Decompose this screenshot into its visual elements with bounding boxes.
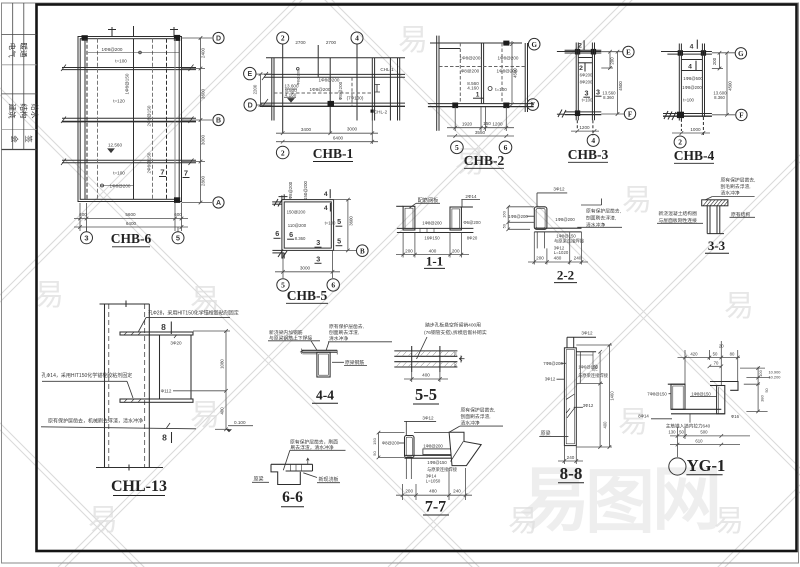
svg-text:2: 2 <box>678 138 682 147</box>
7-7 big leader arrow <box>449 432 481 465</box>
detail CHB-3 plan <box>557 43 625 136</box>
svg-text:图: 图 <box>585 463 655 541</box>
svg-text:50: 50 <box>372 451 377 456</box>
svg-text:1Ф8@200: 1Ф8@200 <box>498 55 519 60</box>
YG-1 right wall <box>717 386 725 414</box>
svg-text:2400: 2400 <box>200 47 205 58</box>
svg-text:4: 4 <box>355 34 359 43</box>
svg-text:3Ф12: 3Ф12 <box>422 415 434 420</box>
svg-text:Ф6@200: Ф6@200 <box>463 220 481 225</box>
long beam CHL-1 double line <box>264 73 405 75</box>
detail CHL-13 <box>96 301 193 471</box>
svg-text:原有结构: 原有结构 <box>731 211 750 218</box>
svg-text:50: 50 <box>454 352 458 356</box>
svg-text:配筋网板: 配筋网板 <box>418 196 440 204</box>
left edge verticals <box>271 58 273 121</box>
8-8 right dims <box>576 343 612 449</box>
right wall 1-1 <box>450 207 461 230</box>
svg-text:结构: 结构 <box>19 104 29 119</box>
svg-text:清水冲净: 清水冲净 <box>329 335 348 342</box>
svg-text:600: 600 <box>174 212 182 217</box>
svg-text:E: E <box>626 49 631 57</box>
8-8 bottom dim <box>558 446 583 464</box>
3-3 top annotation <box>721 176 756 196</box>
CHB-5 right dim <box>334 198 351 252</box>
column squares CHB-6 <box>82 35 88 41</box>
svg-text:8: 8 <box>162 433 167 443</box>
CHB-3 bottom dims <box>571 129 599 133</box>
svg-text:t=120: t=120 <box>113 99 125 104</box>
CHB-6 right dimension chain <box>182 36 213 204</box>
svg-text:CHB-5: CHB-5 <box>287 288 328 303</box>
svg-text:3000: 3000 <box>347 127 358 132</box>
top ticks <box>111 27 113 37</box>
grid circle 6 bottom <box>499 141 512 154</box>
5-5 right small dims <box>454 352 458 367</box>
svg-text:3Ф12: 3Ф12 <box>553 186 565 191</box>
svg-text:760: 760 <box>594 364 599 372</box>
6-6 slab <box>271 458 313 484</box>
section marks 7 in CHB-6 <box>160 168 188 178</box>
svg-text:200: 200 <box>405 489 413 494</box>
svg-text:与原梁钢筋上下焊接: 与原梁钢筋上下焊接 <box>269 334 312 341</box>
svg-text:新浇混凝土结构圈: 新浇混凝土结构圈 <box>659 210 698 217</box>
svg-text:240: 240 <box>574 255 582 260</box>
svg-text:G: G <box>738 50 744 58</box>
svg-text:240: 240 <box>567 455 575 460</box>
column verticals <box>104 304 106 468</box>
svg-text:1Ф8@500: 1Ф8@500 <box>683 76 703 81</box>
7-7 right annotation <box>461 406 496 426</box>
svg-text:给水: 给水 <box>30 104 40 119</box>
svg-text:8: 8 <box>161 322 166 332</box>
svg-text:易: 易 <box>618 406 648 439</box>
svg-text:3000: 3000 <box>200 134 205 145</box>
svg-text:Ф16: Ф16 <box>731 414 740 419</box>
svg-text:150: 150 <box>483 121 491 126</box>
1-1 bottom dims <box>396 233 469 258</box>
svg-text:Ф112: Ф112 <box>161 388 172 393</box>
svg-text:8.360: 8.360 <box>295 236 306 241</box>
svg-text:L=1050: L=1050 <box>426 478 441 483</box>
svg-text:1Ф8@200: 1Ф8@200 <box>682 85 702 90</box>
detail CHB-6 plan <box>61 26 196 203</box>
svg-text:清水冲净: 清水冲净 <box>721 190 740 197</box>
svg-text:2: 2 <box>578 43 582 50</box>
svg-text:3: 3 <box>84 234 88 243</box>
svg-text:t=100: t=100 <box>113 171 125 176</box>
3-3 left annotation <box>659 210 698 224</box>
svg-text:4500: 4500 <box>512 68 517 78</box>
svg-text:5: 5 <box>281 281 285 290</box>
svg-text:孔Ф28，采用HIT150化学锚栓胶粘剂固定: 孔Ф28，采用HIT150化学锚栓胶粘剂固定 <box>148 310 239 317</box>
wire grid verticals <box>282 44 284 133</box>
7-7 left dims <box>377 431 405 459</box>
grid circle B <box>213 114 224 125</box>
grid circle G right <box>735 48 746 59</box>
channel profile <box>159 335 161 399</box>
grid circle 5 bottom <box>451 141 464 154</box>
svg-text:3000: 3000 <box>300 266 311 271</box>
svg-text:150@200: 150@200 <box>287 210 306 215</box>
CHB-6 bottom dimensions <box>74 203 188 232</box>
elevation mark 0.100 <box>226 429 232 432</box>
left wall 1-1 <box>403 206 415 230</box>
svg-text:2Ф14: 2Ф14 <box>465 194 477 199</box>
5-5 slab bands <box>394 346 457 372</box>
svg-text:6: 6 <box>289 230 293 239</box>
svg-text:5-5: 5-5 <box>415 385 437 404</box>
svg-text:t=100: t=100 <box>325 221 336 226</box>
4-4 left annotation <box>269 329 312 342</box>
svg-text:4: 4 <box>690 43 694 50</box>
svg-text:8Ф20: 8Ф20 <box>467 235 478 240</box>
svg-text:110@200: 110@200 <box>288 223 307 228</box>
svg-text:70: 70 <box>714 360 719 365</box>
svg-text:易: 易 <box>622 184 652 217</box>
svg-text:CHL-1: CHL-1 <box>380 67 394 72</box>
grid circle E left <box>244 67 257 111</box>
svg-text:A: A <box>216 200 221 207</box>
svg-text:1000: 1000 <box>690 127 701 132</box>
svg-text:380: 380 <box>760 394 765 401</box>
svg-text:1Ф8@200: 1Ф8@200 <box>508 214 528 219</box>
grid circle 3 <box>81 232 185 244</box>
svg-text:80: 80 <box>454 362 458 366</box>
7-7 wall <box>405 433 468 479</box>
svg-text:500: 500 <box>700 430 708 435</box>
svg-text:YG-1: YG-1 <box>687 456 726 475</box>
svg-text:2-2: 2-2 <box>557 268 574 283</box>
svg-text:CHB-2: CHB-2 <box>464 153 505 168</box>
5-5 bottom dim <box>404 372 448 382</box>
grid circle 4 bottom <box>587 134 599 146</box>
svg-text:1Ф8@150: 1Ф8@150 <box>427 460 447 465</box>
column bottom line <box>96 467 163 469</box>
svg-text:1: 1 <box>476 92 480 99</box>
svg-text:7-7: 7-7 <box>425 499 446 516</box>
svg-text:1Ф8@200: 1Ф8@200 <box>110 183 131 188</box>
svg-text:600: 600 <box>79 212 87 217</box>
svg-text:原梁: 原梁 <box>541 430 551 437</box>
svg-text:原梁: 原梁 <box>254 476 264 483</box>
interior verticals <box>84 39 86 200</box>
svg-text:1920: 1920 <box>462 122 473 127</box>
svg-text:主筋锚入墙内拉力640: 主筋锚入墙内拉力640 <box>666 423 711 430</box>
interior verticals <box>317 45 319 77</box>
column square bottom-right <box>174 197 180 203</box>
grid circle B CHB-5 <box>357 245 369 257</box>
grid circle E right <box>623 46 634 57</box>
svg-text:刨面刷去浮渣,: 刨面刷去浮渣, <box>461 413 491 420</box>
svg-text:7: 7 <box>184 169 188 178</box>
svg-text:Ф8@200: Ф8@200 <box>297 70 301 85</box>
YG-1 cap <box>710 382 738 391</box>
bottom slab 1-1 <box>397 227 474 229</box>
svg-text:2: 2 <box>281 148 285 157</box>
4-4 slab and beam <box>300 349 337 378</box>
svg-text:5: 5 <box>455 143 459 152</box>
svg-text:6Ф200: 6Ф200 <box>580 73 593 78</box>
grid circle F right <box>624 108 635 119</box>
6-6 annotation <box>290 439 338 451</box>
8-8 wall tall rect <box>564 348 576 446</box>
svg-text:12.560: 12.560 <box>108 143 122 148</box>
svg-text:400: 400 <box>422 373 430 378</box>
svg-text:2700: 2700 <box>326 40 337 45</box>
svg-text:4: 4 <box>324 205 328 212</box>
2-2 left dims <box>506 205 534 231</box>
svg-text:3Ф12: 3Ф12 <box>581 330 593 335</box>
grid circle 2 top <box>277 32 289 44</box>
svg-text:F: F <box>531 101 535 109</box>
svg-text:刷去浮渣，清水冲净: 刷去浮渣，清水冲净 <box>291 444 334 451</box>
slab 2-2 <box>534 227 581 229</box>
2-2 right annotation <box>586 208 621 229</box>
svg-text:3600: 3600 <box>200 88 205 99</box>
6-6 old beam step <box>271 464 300 484</box>
svg-text:与原梁连接焊接: 与原梁连接焊接 <box>427 466 458 473</box>
grid circle 4 top <box>351 32 363 44</box>
grid circle F <box>527 99 539 111</box>
svg-text:160: 160 <box>502 210 507 217</box>
CHB-4 right dims <box>712 51 729 117</box>
svg-text:2200: 2200 <box>253 84 258 94</box>
svg-text:2Ф8@150: 2Ф8@150 <box>147 105 152 126</box>
svg-text:1Ф8@200: 1Ф8@200 <box>555 217 575 222</box>
svg-text:5600: 5600 <box>125 212 136 217</box>
svg-text:t=100: t=100 <box>115 59 127 64</box>
svg-text:4.160: 4.160 <box>467 85 479 90</box>
svg-text:1Ф8@200: 1Ф8@200 <box>319 78 340 83</box>
grid circle D left <box>244 99 256 111</box>
svg-text:清水冲净: 清水冲净 <box>461 419 480 426</box>
svg-text:新浇梁内加钢筋: 新浇梁内加钢筋 <box>269 329 303 336</box>
svg-text:新现浇板: 新现浇板 <box>319 476 339 483</box>
svg-text:4.160: 4.160 <box>285 92 297 97</box>
svg-text:易: 易 <box>724 290 754 323</box>
beam end hatch ticks <box>61 65 194 166</box>
YG-1 circle symbol <box>669 458 686 475</box>
svg-text:t=100: t=100 <box>495 87 507 92</box>
YG-1 right dims <box>740 366 770 413</box>
watermark big brand text bottom-right <box>520 460 722 541</box>
CHB-1 bottom dimensions <box>276 121 378 145</box>
beam row 2 (grid B) <box>62 117 196 119</box>
svg-text:1Ф8@200: 1Ф8@200 <box>102 47 123 52</box>
svg-text:610: 610 <box>695 439 703 444</box>
svg-text:480: 480 <box>554 255 562 260</box>
svg-text:2Ф8@150: 2Ф8@150 <box>147 152 152 173</box>
detail CHB-1 plan <box>260 32 405 133</box>
svg-text:CHB-4: CHB-4 <box>674 148 715 163</box>
title block signature strip <box>2 3 37 150</box>
svg-text:4-4: 4-4 <box>316 388 334 403</box>
grid circle 2 bottom <box>276 146 289 159</box>
svg-text:150: 150 <box>372 437 377 444</box>
svg-text:7: 7 <box>160 168 164 177</box>
bottom band <box>260 102 405 104</box>
mid dashed line <box>274 92 372 94</box>
svg-text:1200: 1200 <box>492 122 503 127</box>
svg-text:200: 200 <box>610 57 615 65</box>
svg-text:3600: 3600 <box>348 216 353 226</box>
svg-text:原有保护层凿去，机械刷去浮渣，清水冲净: 原有保护层凿去，机械刷去浮渣，清水冲净 <box>48 418 143 425</box>
CHB-4 bottom dims <box>672 131 710 135</box>
svg-text:Ф8@200: Ф8@200 <box>288 181 293 199</box>
detail CHB-5 plan <box>272 194 356 258</box>
svg-text:6400: 6400 <box>333 135 344 140</box>
svg-text:8.360: 8.360 <box>603 95 614 100</box>
svg-text:3Ф12: 3Ф12 <box>583 403 594 408</box>
svg-text:Ф8@200: Ф8@200 <box>338 81 343 100</box>
grid circle D <box>213 32 224 208</box>
svg-text:7Ф8@200: 7Ф8@200 <box>543 361 563 366</box>
5-5 annotation <box>424 321 487 336</box>
svg-text:原有保护层凿去，刷面: 原有保护层凿去，刷面 <box>290 439 338 446</box>
svg-text:200: 200 <box>452 248 460 253</box>
grid circle F right <box>736 109 747 120</box>
svg-text:1460: 1460 <box>610 391 615 401</box>
svg-text:6: 6 <box>331 281 335 290</box>
3-3 hatched cap <box>702 200 728 234</box>
svg-text:4: 4 <box>324 191 328 198</box>
svg-text:孔Ф14，采用HIT150化学锚栓胶粘剂固定: 孔Ф14，采用HIT150化学锚栓胶粘剂固定 <box>42 372 133 379</box>
svg-text:Ф8@200: Ф8@200 <box>382 441 400 446</box>
svg-text:CHL-13: CHL-13 <box>111 478 167 495</box>
svg-text:2800: 2800 <box>200 175 205 186</box>
grid circle 6 CHB-5 <box>327 279 339 291</box>
svg-text:7Ф8@150: 7Ф8@150 <box>647 391 667 396</box>
detail CHB-4 plan <box>661 44 735 136</box>
2-2 bottom dims <box>528 232 588 265</box>
svg-text:3400: 3400 <box>301 127 312 132</box>
svg-text:2700: 2700 <box>295 40 306 45</box>
3-3 walls <box>706 206 708 234</box>
svg-text:原有保护层凿去,: 原有保护层凿去, <box>329 323 364 330</box>
svg-text:易: 易 <box>88 504 118 537</box>
YG-1 bottom dims <box>670 427 750 457</box>
svg-text:建筑: 建筑 <box>8 104 18 119</box>
svg-text:t=100: t=100 <box>683 97 694 102</box>
CHL-13 right dims <box>193 329 230 431</box>
svg-text:400: 400 <box>220 407 225 415</box>
detail CHB-2 plan <box>428 36 534 131</box>
7-7 texts <box>423 444 458 484</box>
svg-text:Ф8@200: Ф8@200 <box>461 68 480 73</box>
svg-text:400: 400 <box>602 421 607 429</box>
svg-text:480: 480 <box>429 488 437 493</box>
svg-text:1200: 1200 <box>579 125 590 130</box>
svg-text:刨面刷去浮渣,: 刨面刷去浮渣, <box>586 215 616 222</box>
svg-text:G: G <box>531 41 537 49</box>
svg-text:8.360: 8.360 <box>714 95 725 100</box>
svg-text:(76钢管支搭),拆模后嵌补砌实: (76钢管支搭),拆模后嵌补砌实 <box>424 329 487 336</box>
CHB-2 bottom dims <box>447 107 514 138</box>
svg-text:5: 5 <box>337 217 341 226</box>
svg-text:2: 2 <box>579 65 583 72</box>
svg-text:5: 5 <box>337 237 341 246</box>
svg-text:易: 易 <box>398 24 428 57</box>
svg-text:1-1: 1-1 <box>426 254 443 269</box>
svg-text:16Ф150: 16Ф150 <box>424 236 440 241</box>
svg-text:D: D <box>248 103 253 110</box>
bottom steel plate <box>120 399 193 402</box>
svg-text:会: 会 <box>10 135 20 143</box>
CHB-5 bottom dims <box>275 250 340 278</box>
svg-text:CHB-3: CHB-3 <box>568 147 609 162</box>
svg-text:L=1020: L=1020 <box>554 250 569 255</box>
svg-text:B: B <box>216 118 221 125</box>
top steel plate <box>120 332 193 335</box>
grid circle 5 <box>172 232 184 244</box>
svg-text:原梁钢筋: 原梁钢筋 <box>345 359 364 366</box>
wall 2-2 <box>534 207 581 249</box>
svg-text:1Ф8@150: 1Ф8@150 <box>125 73 130 94</box>
svg-text:刮毛刷去浮渣,: 刮毛刷去浮渣, <box>721 183 751 190</box>
svg-text:50: 50 <box>713 351 718 356</box>
CHB-6 inner labels <box>102 47 152 188</box>
svg-text:50: 50 <box>502 223 507 228</box>
svg-text:易: 易 <box>34 279 64 312</box>
svg-text:签: 签 <box>24 135 34 143</box>
7-7 slab <box>405 454 468 456</box>
plan outline CHB-6 <box>78 37 182 202</box>
svg-text:6: 6 <box>504 143 508 152</box>
svg-text:100: 100 <box>758 369 763 376</box>
svg-text:1Ф8@200: 1Ф8@200 <box>423 444 443 449</box>
svg-text:1080: 1080 <box>220 359 225 369</box>
grid circle G <box>528 38 540 50</box>
svg-text:3Ф20: 3Ф20 <box>170 340 182 345</box>
svg-text:原有保护层凿去,: 原有保护层凿去, <box>586 208 621 215</box>
svg-text:E: E <box>247 71 252 78</box>
svg-text:B: B <box>360 247 365 255</box>
4-4 right annotation <box>329 323 364 342</box>
svg-text:(7Ф100): (7Ф100) <box>347 96 364 101</box>
8-8 right slab lines <box>576 351 596 353</box>
svg-text:F: F <box>739 112 743 120</box>
svg-text:3: 3 <box>316 254 320 263</box>
8-8 break diagonals <box>566 394 575 418</box>
svg-text:6-6: 6-6 <box>282 489 303 506</box>
svg-text:5: 5 <box>176 234 180 243</box>
svg-text:8-8: 8-8 <box>560 464 583 483</box>
svg-text:3550: 3550 <box>475 130 486 135</box>
plan top line <box>266 57 405 59</box>
svg-text:D: D <box>216 36 221 43</box>
svg-text:原有保护层凿去,: 原有保护层凿去, <box>461 406 496 413</box>
svg-text:6400: 6400 <box>126 221 137 226</box>
svg-text:130: 130 <box>668 430 676 435</box>
YG-1 main drawing <box>668 382 738 423</box>
svg-text:与原梁连接焊接: 与原梁连接焊接 <box>578 372 609 379</box>
svg-text:200: 200 <box>712 57 717 65</box>
svg-text:4: 4 <box>591 136 595 145</box>
svg-text:0.100: 0.100 <box>234 420 246 425</box>
5-5 hatch <box>396 351 455 367</box>
svg-text:200: 200 <box>536 256 544 261</box>
svg-text:3: 3 <box>585 89 589 98</box>
svg-text:8Ф14: 8Ф14 <box>638 414 649 419</box>
grid circle 2 bottom <box>674 136 686 148</box>
svg-text:原有保护层凿去,: 原有保护层凿去, <box>721 176 756 183</box>
svg-text:420: 420 <box>690 351 698 356</box>
svg-text:1Ф8@200: 1Ф8@200 <box>422 220 442 225</box>
column top line <box>100 303 150 305</box>
svg-text:易: 易 <box>190 399 220 432</box>
svg-text:20: 20 <box>719 343 724 348</box>
